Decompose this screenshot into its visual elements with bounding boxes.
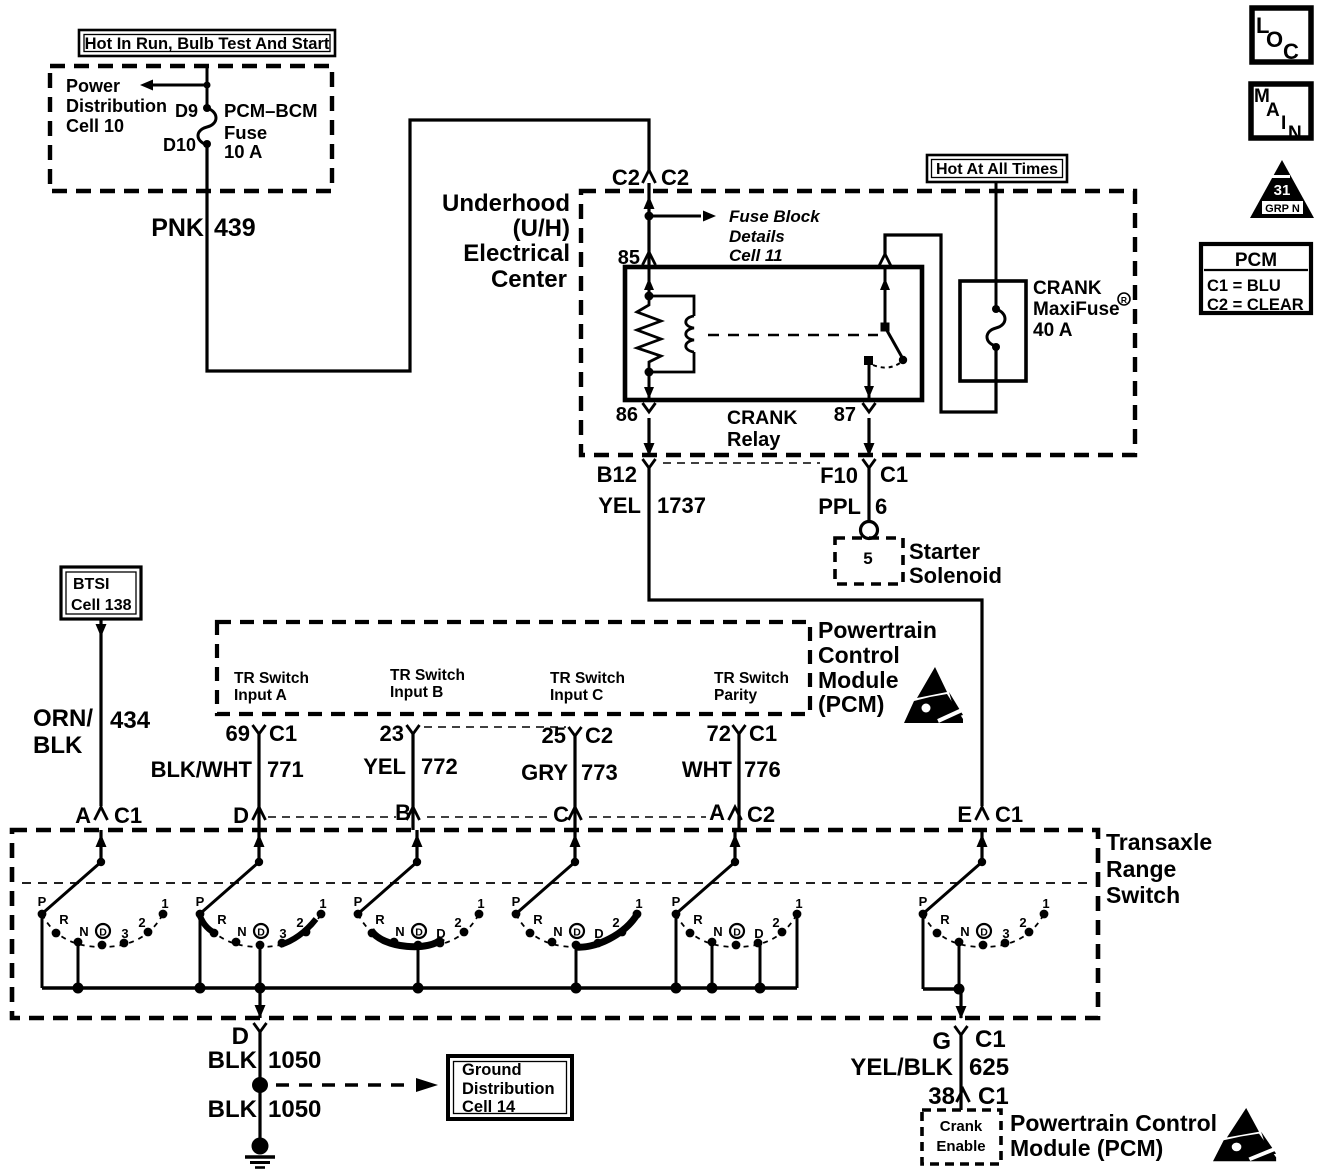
svg-text:R: R	[217, 912, 227, 927]
svg-text:G: G	[932, 1028, 951, 1055]
dashed box Powertrain Control Module	[217, 622, 810, 714]
svg-text:1737: 1737	[657, 493, 706, 518]
switch module 3 input wire	[412, 830, 423, 862]
relay actuation dashed link	[708, 334, 878, 336]
dashed box starter solenoid terminal 5	[835, 538, 903, 584]
svg-text:776: 776	[744, 757, 781, 782]
svg-text:N: N	[713, 924, 722, 939]
ESD sensitive device symbol	[904, 667, 963, 723]
svg-text:Cell 11: Cell 11	[729, 246, 783, 265]
svg-text:P: P	[919, 894, 928, 909]
svg-text:25: 25	[542, 723, 566, 748]
switch module 5 pivot and arm	[678, 858, 739, 912]
svg-text:WHT: WHT	[682, 757, 733, 782]
connector at relay terminal 30	[879, 254, 892, 267]
svg-text:Distribution: Distribution	[66, 96, 167, 116]
wire PNK 439 from fuse D10 to connector C2	[207, 120, 649, 371]
MAIN reference box	[1251, 84, 1311, 144]
svg-text:TR Switch: TR Switch	[234, 670, 309, 687]
svg-text:Solenoid: Solenoid	[909, 563, 1002, 588]
svg-text:D: D	[415, 927, 423, 939]
svg-text:1: 1	[635, 896, 642, 911]
switch module 1 input wire	[96, 830, 107, 862]
svg-text:Parity: Parity	[714, 687, 757, 704]
svg-text:773: 773	[581, 760, 618, 785]
svg-text:D: D	[980, 927, 988, 939]
switch module 6 contact N drop wire	[958, 942, 961, 988]
svg-text:C1: C1	[269, 721, 297, 746]
svg-text:Enable: Enable	[936, 1138, 985, 1155]
svg-text:Input C: Input C	[550, 687, 603, 704]
svg-text:Cell 14: Cell 14	[462, 1098, 516, 1116]
relay coil winding	[649, 296, 694, 372]
switch module 1 position labels	[38, 894, 169, 941]
svg-text:10 A: 10 A	[224, 141, 262, 162]
svg-text:GRY: GRY	[521, 760, 568, 785]
svg-text:GRP N: GRP N	[1265, 203, 1300, 215]
internal dashed line of range switch	[22, 882, 1094, 884]
svg-text:Range: Range	[1106, 856, 1176, 882]
switch module 4 closed contact band OD-1	[575, 913, 638, 947]
pin F10 C1 connector	[820, 459, 908, 488]
wire BLK 1050 to ground	[258, 1032, 261, 1140]
switch module 4 contact arc	[516, 914, 637, 947]
fuse PCM-BCM 10A symbol	[198, 104, 216, 148]
svg-text:P: P	[196, 894, 205, 909]
label Powertrain Control Module PCM bottom	[1010, 1110, 1217, 1161]
switch module 5 position labels	[672, 894, 803, 941]
svg-text:C: C	[553, 802, 569, 827]
svg-text:O: O	[1266, 27, 1283, 52]
label BLK 1050 upper	[208, 1047, 322, 1074]
relay coil input wire	[644, 267, 654, 301]
pin 25 C2	[542, 723, 614, 748]
relay switch movable arm	[881, 323, 908, 365]
svg-text:E: E	[957, 802, 972, 827]
svg-text:C1 = BLU: C1 = BLU	[1207, 277, 1281, 295]
pin 72 C1	[707, 721, 778, 746]
svg-text:C1: C1	[978, 1083, 1009, 1110]
svg-text:72: 72	[707, 721, 731, 746]
svg-text:Fuse: Fuse	[224, 122, 267, 143]
svg-text:Powertrain: Powertrain	[818, 617, 937, 643]
label YEL 1737	[598, 493, 706, 518]
svg-text:D10: D10	[163, 135, 196, 155]
pin E C1 of transaxle range switch	[957, 802, 1023, 827]
LOC reference box	[1252, 8, 1311, 64]
connector C2 into underhood center	[612, 165, 689, 190]
switch module 3 contacts	[354, 910, 484, 950]
svg-text:R: R	[940, 912, 950, 927]
svg-text:771: 771	[267, 757, 304, 782]
switch module 6 pivot and arm	[925, 858, 986, 912]
svg-text:1: 1	[1042, 896, 1049, 911]
label TR Switch Parity	[714, 670, 789, 704]
switch module 6 contacts	[919, 910, 1049, 950]
wire ORN/BLK 434 from BTSI to pin A	[96, 619, 107, 806]
dashed arrow to ground distribution	[276, 1078, 438, 1092]
switch module 5 contact arc	[676, 914, 797, 947]
svg-text:2: 2	[772, 915, 779, 930]
svg-text:38: 38	[928, 1083, 955, 1110]
switch module 3 closed contact band R-3	[371, 930, 442, 947]
dashed box Crank Enable	[922, 1110, 1001, 1164]
pin B12 connector	[597, 459, 656, 487]
svg-text:Underhood: Underhood	[442, 190, 570, 217]
svg-text:PCM: PCM	[1235, 250, 1277, 271]
ESD sensitive device symbol bottom	[1213, 1108, 1276, 1161]
svg-text:Starter: Starter	[909, 539, 980, 564]
label Underhood (U/H) Electrical Center	[442, 190, 570, 293]
switch module 3 contact OD drop wire	[417, 945, 420, 988]
wire hot feed to crank maxifuse	[995, 182, 998, 309]
svg-text:2: 2	[138, 915, 145, 930]
svg-text:MaxiFuse: MaxiFuse	[1033, 299, 1120, 320]
switch module 5 input wire	[730, 830, 741, 862]
svg-text:3: 3	[279, 926, 286, 941]
wire from hot feed into fuse D9	[206, 66, 209, 107]
svg-text:1050: 1050	[268, 1047, 321, 1074]
svg-text:TR Switch: TR Switch	[390, 667, 465, 684]
svg-text:R: R	[693, 912, 703, 927]
svg-text:P: P	[672, 894, 681, 909]
svg-text:TR Switch: TR Switch	[550, 670, 625, 687]
connector dashed line D to B	[268, 816, 396, 818]
svg-text:Module (PCM): Module (PCM)	[1010, 1135, 1163, 1161]
svg-text:5: 5	[863, 549, 872, 568]
svg-text:Control: Control	[818, 642, 900, 668]
label TR Switch Input C	[550, 670, 625, 704]
svg-text:1: 1	[319, 896, 326, 911]
PCM connector legend box	[1201, 244, 1311, 314]
svg-text:Center: Center	[491, 266, 567, 293]
svg-text:C1: C1	[114, 803, 142, 828]
switch module 1 pivot and arm	[44, 858, 105, 912]
switch module 2 contact OD drop wire	[259, 945, 262, 988]
svg-text:D: D	[99, 927, 107, 939]
pin 23	[380, 721, 420, 746]
svg-text:A: A	[75, 803, 91, 828]
svg-text:C1: C1	[880, 462, 908, 487]
label Transaxle Range Switch	[1106, 829, 1212, 908]
svg-text:CRANK: CRANK	[727, 407, 797, 429]
label WHT 776	[682, 757, 781, 782]
svg-text:772: 772	[421, 754, 458, 779]
svg-text:YEL: YEL	[598, 493, 641, 518]
connector line between B12 and F10	[663, 462, 820, 464]
svg-text:Electrical: Electrical	[463, 240, 570, 267]
svg-text:Input A: Input A	[234, 687, 287, 704]
svg-text:D: D	[733, 927, 741, 939]
label YEL 772	[363, 754, 458, 779]
svg-text:Ground: Ground	[462, 1061, 522, 1079]
svg-text:P: P	[38, 894, 47, 909]
switch module 2 pivot and arm	[202, 858, 263, 912]
relay switch common wire from terminal 30	[880, 267, 890, 327]
resistor in crank relay	[637, 296, 661, 372]
svg-text:Hot At All Times: Hot At All Times	[936, 161, 1058, 178]
pin C of transaxle range switch	[553, 802, 581, 827]
svg-text:C2: C2	[747, 802, 775, 827]
svg-text:1050: 1050	[268, 1096, 321, 1123]
pin A C1 connector of transaxle range switch	[75, 803, 142, 828]
svg-text:B: B	[395, 800, 411, 825]
starter solenoid terminal ring	[861, 522, 878, 539]
svg-text:Hot In Run, Bulb Test And Star: Hot In Run, Bulb Test And Start	[85, 35, 330, 53]
svg-text:ORN/: ORN/	[33, 705, 93, 732]
label BLK 1050 lower	[208, 1096, 322, 1123]
label box Hot At All Times	[927, 155, 1067, 182]
svg-text:P: P	[354, 894, 363, 909]
svg-text:C1: C1	[975, 1026, 1006, 1053]
pin 38 C1 of PCM	[928, 1083, 1008, 1110]
svg-text:BTSI: BTSI	[73, 576, 109, 593]
svg-text:1: 1	[795, 896, 802, 911]
pin G C1 connector	[932, 1026, 1005, 1055]
wire YEL 1737 from B12 to pin E	[649, 468, 982, 806]
switch module 4 pivot and arm	[518, 858, 579, 912]
svg-text:439: 439	[214, 214, 256, 242]
svg-text:3: 3	[121, 926, 128, 941]
svg-text:N: N	[1288, 123, 1302, 144]
svg-text:Relay: Relay	[727, 429, 781, 451]
wire 86 to B12	[644, 418, 655, 456]
crank relay box	[625, 267, 922, 400]
svg-text:Cell 138: Cell 138	[71, 597, 132, 614]
svg-text:BLK: BLK	[208, 1047, 258, 1074]
label CRANK Relay	[727, 407, 797, 451]
pin D of transaxle range switch	[233, 803, 265, 828]
pin 69 C1	[226, 721, 298, 746]
wire pin D output BLK 1050	[255, 988, 266, 1018]
svg-text:A: A	[709, 800, 725, 825]
module 6 bus wire	[923, 914, 965, 995]
svg-text:86: 86	[616, 404, 638, 426]
svg-text:D: D	[573, 927, 581, 939]
label PPL 6	[818, 494, 887, 519]
dashed box Power Distribution Cell 10	[50, 66, 332, 191]
svg-text:Details: Details	[729, 227, 785, 246]
svg-text:D: D	[232, 1023, 249, 1050]
svg-text:Fuse Block: Fuse Block	[729, 207, 821, 226]
switch module 5 contact P drop wire	[675, 914, 678, 988]
svg-text:Module: Module	[818, 667, 899, 693]
svg-text:Transaxle: Transaxle	[1106, 829, 1212, 855]
connector line pin 23 to pin 25	[424, 726, 566, 728]
switch module 5 contact D drop wire	[759, 943, 762, 988]
wire PPL 6 from F10 to starter solenoid	[867, 468, 870, 521]
svg-text:D: D	[233, 803, 249, 828]
pin B of transaxle range switch	[395, 800, 419, 825]
switch module 5 contact N drop wire	[711, 942, 714, 988]
wire YEL 772	[411, 734, 414, 830]
svg-text:BLK/WHT: BLK/WHT	[151, 757, 253, 782]
label Powertrain Control Module PCM	[818, 617, 937, 717]
svg-text:R: R	[375, 912, 385, 927]
label ORN/BLK 434	[33, 705, 151, 759]
node junction to fuse block details	[645, 211, 717, 222]
wire BLK/WHT 771	[257, 734, 260, 830]
switch module 2 input wire	[254, 830, 265, 862]
label PCM-BCM Fuse 10 A	[224, 100, 318, 162]
svg-text:2: 2	[296, 915, 303, 930]
svg-text:C1: C1	[995, 802, 1023, 827]
fuse CRANK MaxiFuse 40A symbol	[987, 305, 1005, 351]
svg-text:F10: F10	[820, 463, 858, 488]
text Power Distribution Cell 10	[66, 76, 167, 136]
switch module 4 contact OD drop wire	[575, 945, 578, 988]
pin 85 of crank relay	[618, 247, 656, 269]
label box Ground Distribution Cell 14	[448, 1056, 572, 1119]
svg-text:3: 3	[1002, 926, 1009, 941]
svg-text:Powertrain Control: Powertrain Control	[1010, 1110, 1217, 1136]
label BLK/WHT 771	[151, 757, 304, 782]
switch module 1 contacts	[38, 910, 168, 950]
pin 87 label	[834, 403, 876, 426]
svg-text:Distribution: Distribution	[462, 1080, 555, 1098]
svg-text:N: N	[395, 924, 404, 939]
svg-text:Switch: Switch	[1106, 882, 1180, 908]
svg-text:BLK: BLK	[208, 1096, 258, 1123]
svg-text:R: R	[533, 912, 543, 927]
svg-text:2: 2	[612, 915, 619, 930]
switch module 3 pivot and arm	[360, 858, 421, 912]
svg-text:87: 87	[834, 404, 856, 426]
switch module 6 contact arc	[923, 914, 1044, 947]
svg-text:23: 23	[380, 721, 404, 746]
wire 87 to F10	[864, 418, 875, 456]
label YEL/BLK 625	[850, 1054, 1009, 1081]
svg-text:6: 6	[875, 494, 887, 519]
svg-text:PPL: PPL	[818, 494, 861, 519]
switch module 2 contact arc	[200, 914, 321, 947]
svg-text:D: D	[754, 926, 763, 941]
pin A C2 of transaxle range switch	[709, 800, 775, 827]
svg-text:1: 1	[477, 896, 484, 911]
svg-text:PCM–BCM: PCM–BCM	[224, 100, 318, 121]
switch module 6 position labels	[919, 894, 1050, 941]
switch module 3 position labels	[354, 894, 485, 941]
wire 38 to crank enable	[959, 1089, 962, 1110]
svg-text:1: 1	[161, 896, 168, 911]
svg-text:N: N	[79, 924, 88, 939]
switch module 4 input wire	[570, 830, 581, 862]
range switch common bus wire	[42, 914, 797, 988]
svg-text:69: 69	[226, 721, 250, 746]
svg-text:R: R	[59, 912, 69, 927]
switch module 3 contact arc	[358, 914, 479, 947]
switch module 1 contact N drop wire	[77, 942, 80, 988]
wire relay pin 86 output	[644, 372, 654, 400]
pin D10 label	[163, 135, 196, 155]
switch module 1 contact P drop wire	[41, 914, 44, 988]
switch module 6 input wire	[977, 830, 988, 862]
dashed box Underhood Electrical Center	[581, 191, 1135, 455]
label GRY 773	[521, 760, 618, 785]
svg-text:C2: C2	[661, 165, 689, 190]
svg-text:TR Switch: TR Switch	[714, 670, 789, 687]
svg-text:625: 625	[969, 1054, 1009, 1081]
svg-text:C1: C1	[749, 721, 777, 746]
svg-text:434: 434	[110, 707, 151, 734]
arrow branch to power distribution	[140, 80, 211, 91]
label box Hot In Run Bulb Test And Start	[79, 30, 335, 56]
switch module 6 contact P drop wire	[922, 914, 925, 988]
node relay coil bottom junction	[645, 368, 654, 377]
connector dashed line B to C	[427, 816, 552, 818]
switch module 2 position labels	[196, 894, 327, 941]
switch module 2 closed contact band P-R	[200, 916, 217, 934]
label Starter Solenoid	[909, 539, 1002, 588]
ground group 31 triangle symbol	[1250, 160, 1314, 218]
label box BTSI Cell 138	[61, 567, 141, 619]
svg-text:C: C	[1283, 39, 1299, 64]
label PNK 439	[151, 214, 256, 242]
svg-text:YEL/BLK: YEL/BLK	[850, 1054, 953, 1081]
svg-text:CRANK: CRANK	[1033, 278, 1102, 299]
crank maxifuse box	[960, 281, 1026, 381]
wire WHT 776	[737, 734, 740, 830]
svg-text:D: D	[257, 927, 265, 939]
svg-text:(PCM): (PCM)	[818, 691, 884, 717]
svg-text:PNK: PNK	[151, 214, 204, 242]
svg-text:P: P	[512, 894, 521, 909]
svg-text:N: N	[237, 924, 246, 939]
svg-text:BLK: BLK	[33, 732, 83, 759]
label Fuse Block Details Cell 11	[729, 207, 821, 265]
dashed box Transaxle Range Switch	[12, 830, 1098, 1018]
svg-text:2: 2	[1019, 915, 1026, 930]
connector dashed line C to A	[589, 816, 706, 818]
wire GRY 773	[573, 736, 576, 830]
svg-text:D: D	[436, 926, 445, 941]
switch module 4 position labels	[512, 894, 643, 941]
ground G103	[245, 1138, 275, 1168]
svg-text:D: D	[594, 926, 603, 941]
svg-text:N: N	[960, 924, 969, 939]
svg-text:Crank: Crank	[940, 1118, 983, 1135]
wire YEL/BLK 625	[959, 1035, 962, 1089]
svg-text:C2: C2	[612, 165, 640, 190]
bus junction nodes	[73, 983, 766, 994]
pin D9 label	[175, 101, 198, 121]
svg-text:YEL: YEL	[363, 754, 406, 779]
relay switch contact 87	[864, 356, 900, 400]
pin D bottom connector	[232, 1023, 267, 1050]
svg-text:2: 2	[454, 915, 461, 930]
label TR Switch Input A	[234, 670, 309, 704]
wire pin G output	[956, 989, 967, 1019]
svg-text:31: 31	[1274, 182, 1291, 199]
svg-text:I: I	[1281, 113, 1286, 134]
wire maxifuse to relay terminal 30	[885, 235, 996, 412]
svg-text:D9: D9	[175, 101, 198, 121]
switch module 5 contacts	[672, 910, 802, 950]
svg-text:C2 = CLEAR: C2 = CLEAR	[1207, 296, 1304, 314]
svg-text:(U/H): (U/H)	[513, 215, 570, 242]
svg-text:Cell 10: Cell 10	[66, 116, 124, 136]
svg-text:C2: C2	[585, 723, 613, 748]
switch module 2 contact P drop wire	[199, 914, 202, 988]
svg-text:B12: B12	[597, 462, 637, 487]
svg-text:R: R	[1121, 295, 1127, 305]
node splice to ground distribution	[252, 1077, 268, 1093]
switch module 5 contact 1 drop wire	[796, 914, 799, 988]
svg-text:A: A	[1266, 100, 1280, 121]
switch module 2 closed contact band 3-1	[280, 919, 316, 945]
svg-text:Power: Power	[66, 76, 120, 96]
svg-text:40 A: 40 A	[1033, 320, 1073, 341]
